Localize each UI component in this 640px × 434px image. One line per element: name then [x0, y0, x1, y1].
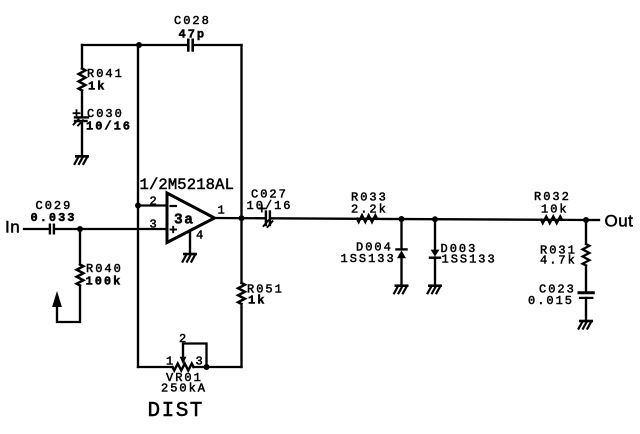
svg-text:C028: C028: [174, 14, 211, 28]
svg-text:3: 3: [196, 355, 205, 369]
svg-text:In: In: [5, 218, 20, 237]
svg-text:DIST: DIST: [148, 400, 204, 423]
svg-text:10/16: 10/16: [86, 120, 132, 134]
svg-text:10/16: 10/16: [247, 199, 293, 213]
svg-text:1SS133: 1SS133: [341, 252, 396, 266]
svg-text:0.015: 0.015: [528, 294, 574, 308]
svg-text:2.2k: 2.2k: [351, 202, 388, 216]
svg-text:100k: 100k: [86, 275, 123, 289]
svg-text:0.033: 0.033: [31, 211, 77, 225]
svg-text:3a: 3a: [174, 213, 194, 229]
svg-text:1/2M5218AL: 1/2M5218AL: [140, 176, 235, 194]
svg-text:4: 4: [196, 229, 205, 243]
svg-text:1k: 1k: [248, 294, 266, 308]
svg-text:47p: 47p: [179, 28, 207, 42]
svg-text:250kA: 250kA: [161, 382, 207, 396]
svg-text:3: 3: [150, 218, 159, 232]
svg-text:Out: Out: [605, 212, 634, 231]
svg-text:2: 2: [150, 195, 159, 209]
svg-text:1: 1: [166, 355, 175, 369]
svg-text:4.7k: 4.7k: [540, 254, 577, 268]
svg-text:2: 2: [179, 332, 188, 346]
svg-text:1: 1: [218, 204, 227, 218]
svg-text:1k: 1k: [88, 80, 106, 94]
svg-text:10k: 10k: [541, 202, 569, 216]
svg-text:1SS133: 1SS133: [442, 253, 497, 267]
